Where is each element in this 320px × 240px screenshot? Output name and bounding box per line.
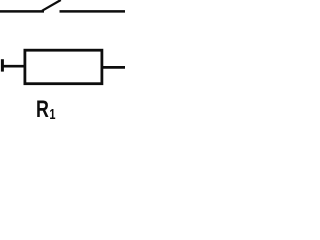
background — [0, 0, 125, 125]
resistor R1 body — [25, 50, 102, 83]
wire: switch right lead — [60, 10, 126, 13]
label R1 — [36, 97, 56, 123]
switch S1 lever (cropped at top edge) — [42, 0, 61, 11]
wire: resistor right lead — [102, 66, 125, 69]
node: left terminal bar — [1, 59, 4, 71]
wire: resistor left lead — [2, 65, 26, 68]
svg-text:R: R — [36, 97, 49, 123]
wire: switch left lead — [0, 10, 44, 13]
svg-text:1: 1 — [49, 105, 55, 122]
